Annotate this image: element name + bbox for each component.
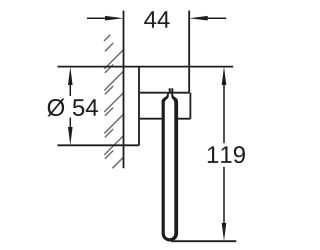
body bottom step line bbox=[140, 92, 189, 94]
pivot stub above body line bbox=[170, 88, 173, 92]
dimension diameter 54 bbox=[69, 84, 71, 129]
119 bottom extension line bbox=[171, 240, 236, 242]
dimension 44 bbox=[87, 17, 226, 19]
escutcheon bottom + left extension line bbox=[58, 144, 140, 146]
lower block right edge bbox=[189, 93, 191, 119]
lower block bottom line bbox=[140, 118, 191, 120]
wall hatching bbox=[104, 35, 124, 169]
ring white fill bbox=[162, 92, 179, 241]
ring tube outline bbox=[162, 92, 179, 241]
escutcheon front edge bbox=[138, 67, 140, 146]
body right edge + 44 right extension bbox=[188, 11, 190, 93]
dimension 119 bbox=[223, 84, 225, 224]
wall line bbox=[123, 11, 125, 169]
top horizontal line (escutcheon top + body top + extension lines) bbox=[58, 66, 234, 68]
